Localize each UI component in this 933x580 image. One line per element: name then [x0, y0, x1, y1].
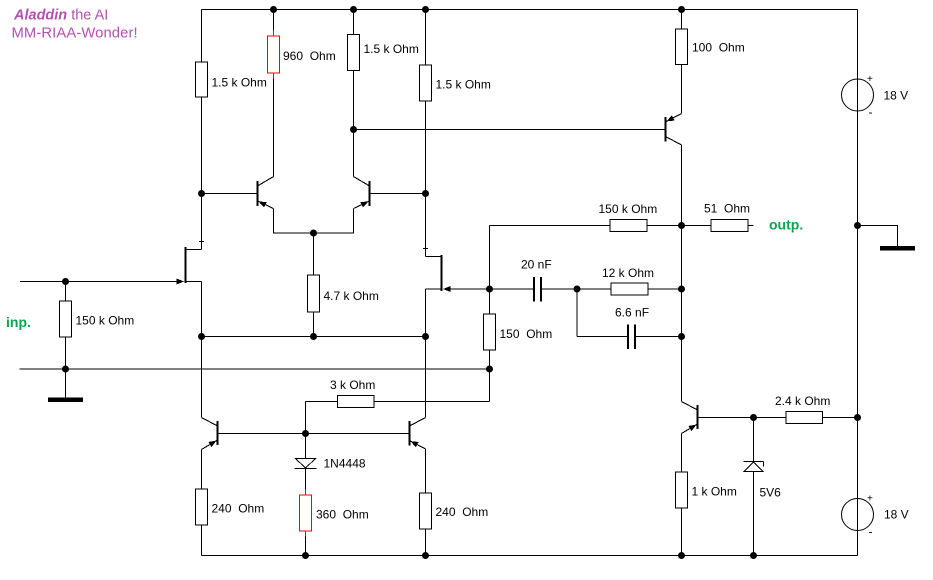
resistor R7 150 Ohm: [484, 314, 553, 350]
wire: D2 to bottom rail: [753, 472, 755, 556]
capacitor C1 20 nF: [521, 258, 552, 302]
resistor R14 51 Ohm (output): [704, 202, 750, 232]
wire: T4 emitter to R9: [201, 450, 203, 490]
resistor R5 100 Ohm: [676, 29, 745, 65]
wire: T4 collector up: [201, 337, 203, 418]
svg-text:150 k Ohm: 150 k Ohm: [76, 314, 135, 328]
junction: left column at source rail: [198, 333, 205, 340]
junction: input ground node: [62, 366, 69, 373]
wire: tap to R15: [577, 288, 611, 290]
wire: right supply rail: [857, 10, 859, 556]
wire: signal ground rail y=369: [20, 368, 490, 370]
wire: R6 bottom to source rail: [313, 312, 315, 337]
resistor R15 12 k Ohm: [602, 266, 654, 295]
svg-text:-: -: [869, 525, 873, 539]
wire: output column 225.5 to 336.5: [681, 226, 683, 337]
wire: node to C1: [490, 288, 534, 290]
svg-text:+: +: [867, 494, 873, 505]
junction: bottom rail / R10: [302, 552, 309, 559]
wire: C1 to 6.6nF tap: [542, 288, 577, 290]
junction: bottom rail / D2: [750, 552, 757, 559]
wire: R12 to bottom rail: [681, 508, 683, 556]
resistor R17 2.4 k Ohm: [775, 394, 830, 424]
wire: R4 down to J2 drain: [425, 101, 427, 257]
junction: bottom rail / R11: [422, 552, 429, 559]
label inp.: [6, 314, 31, 330]
junction: T2 base / D column: [422, 190, 429, 197]
diode D1 1N4448: [295, 457, 366, 471]
wire: T3 base line y=129.5: [354, 129, 666, 131]
resistor R13 150 k Ohm (feedback): [599, 202, 658, 232]
pin tick J2 drain: [423, 248, 428, 250]
wire: input gate line: [20, 281, 178, 283]
svg-text:150 Ohm: 150 Ohm: [500, 327, 553, 341]
junction: top rail / R5: [678, 6, 685, 13]
wire: J2 source down: [425, 289, 427, 418]
resistor R10 360 Ohm (red): [300, 490, 369, 537]
wire: R2 to T1 collector: [273, 79, 275, 177]
wire: zener node to R17: [754, 417, 787, 419]
svg-text:-: -: [869, 105, 873, 119]
junction: zener node: [750, 414, 757, 421]
resistor R11 240 Ohm: [420, 493, 489, 529]
svg-text:6.6 nF: 6.6 nF: [615, 306, 649, 320]
wire: J2 drain step: [426, 256, 442, 258]
wire: top rail to R3: [353, 10, 355, 35]
svg-text:3 k Ohm: 3 k Ohm: [330, 378, 375, 392]
svg-text:100 Ohm: 100 Ohm: [692, 41, 745, 55]
wire: 3k line right segment: [374, 401, 490, 403]
pin tick J1 drain: [199, 241, 204, 243]
svg-text:+: +: [867, 74, 873, 85]
wire: sink base rail y=433.5: [218, 433, 410, 435]
wire: top rail to R5: [681, 10, 683, 30]
wire: +18V top rail: [202, 9, 858, 11]
voltage source V1 18 V: [842, 74, 909, 119]
junction: right rail ground tap: [854, 222, 861, 229]
resistor R9 240 Ohm: [196, 489, 265, 525]
junction: right rail / R17: [854, 414, 861, 421]
transistor T4 (sink left, PNP): [202, 418, 218, 450]
jfet J2 (mirrored): [426, 255, 451, 292]
wire: T3 collector down to feedback node: [681, 145, 683, 226]
wire: R9 to bottom rail: [201, 525, 203, 556]
junction: source rail / R6: [310, 333, 317, 340]
junction: common emitter node: [310, 230, 317, 237]
wire: feedback line left segment: [490, 225, 611, 227]
wire: R15 to output column: [648, 288, 682, 290]
resistor R8 150 k Ohm (input): [60, 301, 135, 337]
wire: down to input ground symbol: [65, 369, 67, 398]
junction: feedback node: [486, 286, 493, 293]
wire: R13 to output node: [647, 225, 682, 227]
wire: R5 to T3 emitter: [681, 65, 683, 114]
junction: output column / C2: [678, 333, 685, 340]
wire: 6.6nF branch vertical: [576, 289, 578, 337]
resistor R6 4.7 k Ohm: [308, 275, 379, 312]
junction: T3 collector / feedback / output: [678, 222, 685, 229]
svg-text:4.7 k Ohm: 4.7 k Ohm: [324, 289, 379, 303]
wire: R1 to T1 base node and J1 drain: [201, 97, 203, 250]
svg-text:MM-RIAA-Wonder!: MM-RIAA-Wonder!: [12, 26, 138, 42]
junction: top rail / R3: [350, 6, 357, 13]
wire: D1 to R10: [305, 469, 307, 490]
wire: R10 to bottom rail: [305, 537, 307, 556]
wire: R7 bottom through ground node to 3k corner: [489, 350, 491, 402]
wire: R3 to T2 collector: [353, 71, 355, 177]
transistor T1 (diff pair left, PNP): [258, 177, 274, 209]
wire: T6 emitter to R12: [681, 434, 683, 473]
svg-text:150 k Ohm: 150 k Ohm: [599, 202, 658, 216]
wire: T1 base: [202, 193, 258, 195]
wire: feedback vertical: [489, 226, 491, 290]
svg-text:12 k Ohm: 12 k Ohm: [602, 266, 654, 280]
svg-text:Aladdin the AI: Aladdin the AI: [13, 8, 108, 24]
resistor R3 1.5 k Ohm: [348, 35, 419, 71]
wire: top rail to R2: [273, 10, 275, 31]
svg-text:outp.: outp.: [769, 217, 803, 233]
junction: ground rail / feedback column: [486, 366, 493, 373]
wire: feedback node to R7: [489, 289, 491, 314]
wire: J1 source down left column: [201, 282, 203, 418]
wire: emitter node to R6: [313, 233, 315, 275]
wire: -18V bottom rail: [202, 555, 858, 557]
wire: R8 bottom to ground rail: [65, 337, 67, 369]
wire: 3k corner down to base rail: [305, 402, 307, 434]
ground (input): [49, 398, 83, 402]
svg-text:1 k Ohm: 1 k Ohm: [692, 485, 737, 499]
wire: J2 gate from feedback node: [451, 288, 490, 290]
ground (right rail): [881, 247, 915, 251]
wire: base rail node down to D1: [305, 434, 307, 459]
svg-text:1.5 k Ohm: 1.5 k Ohm: [436, 78, 491, 92]
resistor R2 960 Ohm (red): [268, 30, 336, 79]
wire: 6.6nF branch horizontal left: [577, 336, 627, 338]
title text: [12, 8, 138, 42]
resistor R16 3 k Ohm: [330, 378, 375, 408]
wire: 3k line left segment: [306, 401, 338, 403]
wire: C2 to output column: [636, 336, 682, 338]
jfet J1 input left: [177, 247, 202, 285]
junction: T1 base node: [198, 190, 205, 197]
capacitor C2 6.6 nF: [615, 306, 649, 350]
svg-text:240 Ohm: 240 Ohm: [436, 505, 489, 519]
wire: T6 base to zener node: [698, 417, 754, 419]
svg-text:51 Ohm: 51 Ohm: [704, 202, 750, 216]
resistor R12 1 k Ohm: [676, 472, 737, 508]
wire: top rail to R4: [425, 10, 427, 66]
zener diode D2 5V6: [744, 462, 782, 500]
wire: output column to T6 collector: [681, 337, 683, 402]
transistor T3 (VAS, PNP): [666, 114, 682, 146]
label outp.: [769, 217, 803, 233]
wire: J1 drain step: [186, 249, 202, 251]
wire: R17 to right rail: [823, 417, 858, 419]
resistor R4 1.5 k Ohm: [420, 65, 491, 101]
svg-text:20 nF: 20 nF: [521, 258, 552, 272]
junction: output column mid: [678, 286, 685, 293]
svg-text:1.5 k Ohm: 1.5 k Ohm: [364, 42, 419, 56]
wire: T5 emitter to R11: [425, 449, 427, 493]
svg-text:inp.: inp.: [6, 314, 31, 330]
wire: gate line to R8 top: [65, 282, 67, 302]
junction: top rail / R2: [270, 6, 277, 13]
svg-text:2.4 k Ohm: 2.4 k Ohm: [775, 394, 830, 408]
svg-text:1.5 k Ohm: 1.5 k Ohm: [212, 76, 267, 90]
wire: zener node down to D2: [753, 418, 755, 462]
wire: to right ground: [858, 226, 898, 247]
wire: diff pair common emitters: [274, 209, 354, 234]
resistor R1 1.5 k Ohm: [196, 62, 267, 97]
svg-text:18 V: 18 V: [884, 508, 909, 522]
svg-text:240 Ohm: 240 Ohm: [212, 502, 265, 516]
transistor T2 (diff pair right, PNP): [354, 177, 370, 209]
svg-text:1N4448: 1N4448: [324, 457, 366, 471]
voltage source V2 18 V: [842, 494, 909, 539]
junction: gate line / R8: [62, 278, 69, 285]
wire: T5 collector up: [425, 337, 427, 418]
wire: R14 to output terminal: [748, 225, 754, 227]
transistor T5 (sink right, PNP): [410, 418, 426, 450]
svg-text:5V6: 5V6: [760, 486, 782, 500]
svg-text:960 Ohm: 960 Ohm: [283, 49, 336, 63]
wire: JFET source rail y=336.5: [202, 336, 426, 338]
wire: output node to R14: [682, 225, 712, 227]
junction: T3 base wire tap: [350, 126, 357, 133]
junction: base rail / diode column: [302, 430, 309, 437]
junction: source rail / J2 source: [422, 333, 429, 340]
svg-text:18 V: 18 V: [884, 89, 909, 103]
junction: 6.6nF branch tap: [574, 286, 581, 293]
svg-text:360 Ohm: 360 Ohm: [316, 508, 369, 522]
junction: top rail / R4: [422, 6, 429, 13]
transistor T6 (output, PNP): [682, 402, 698, 434]
junction: bottom rail / R12: [678, 552, 685, 559]
wire: R11 to bottom rail: [425, 529, 427, 556]
wire: top rail to R1: [201, 10, 203, 63]
wire: T2 base to D column: [370, 193, 426, 195]
